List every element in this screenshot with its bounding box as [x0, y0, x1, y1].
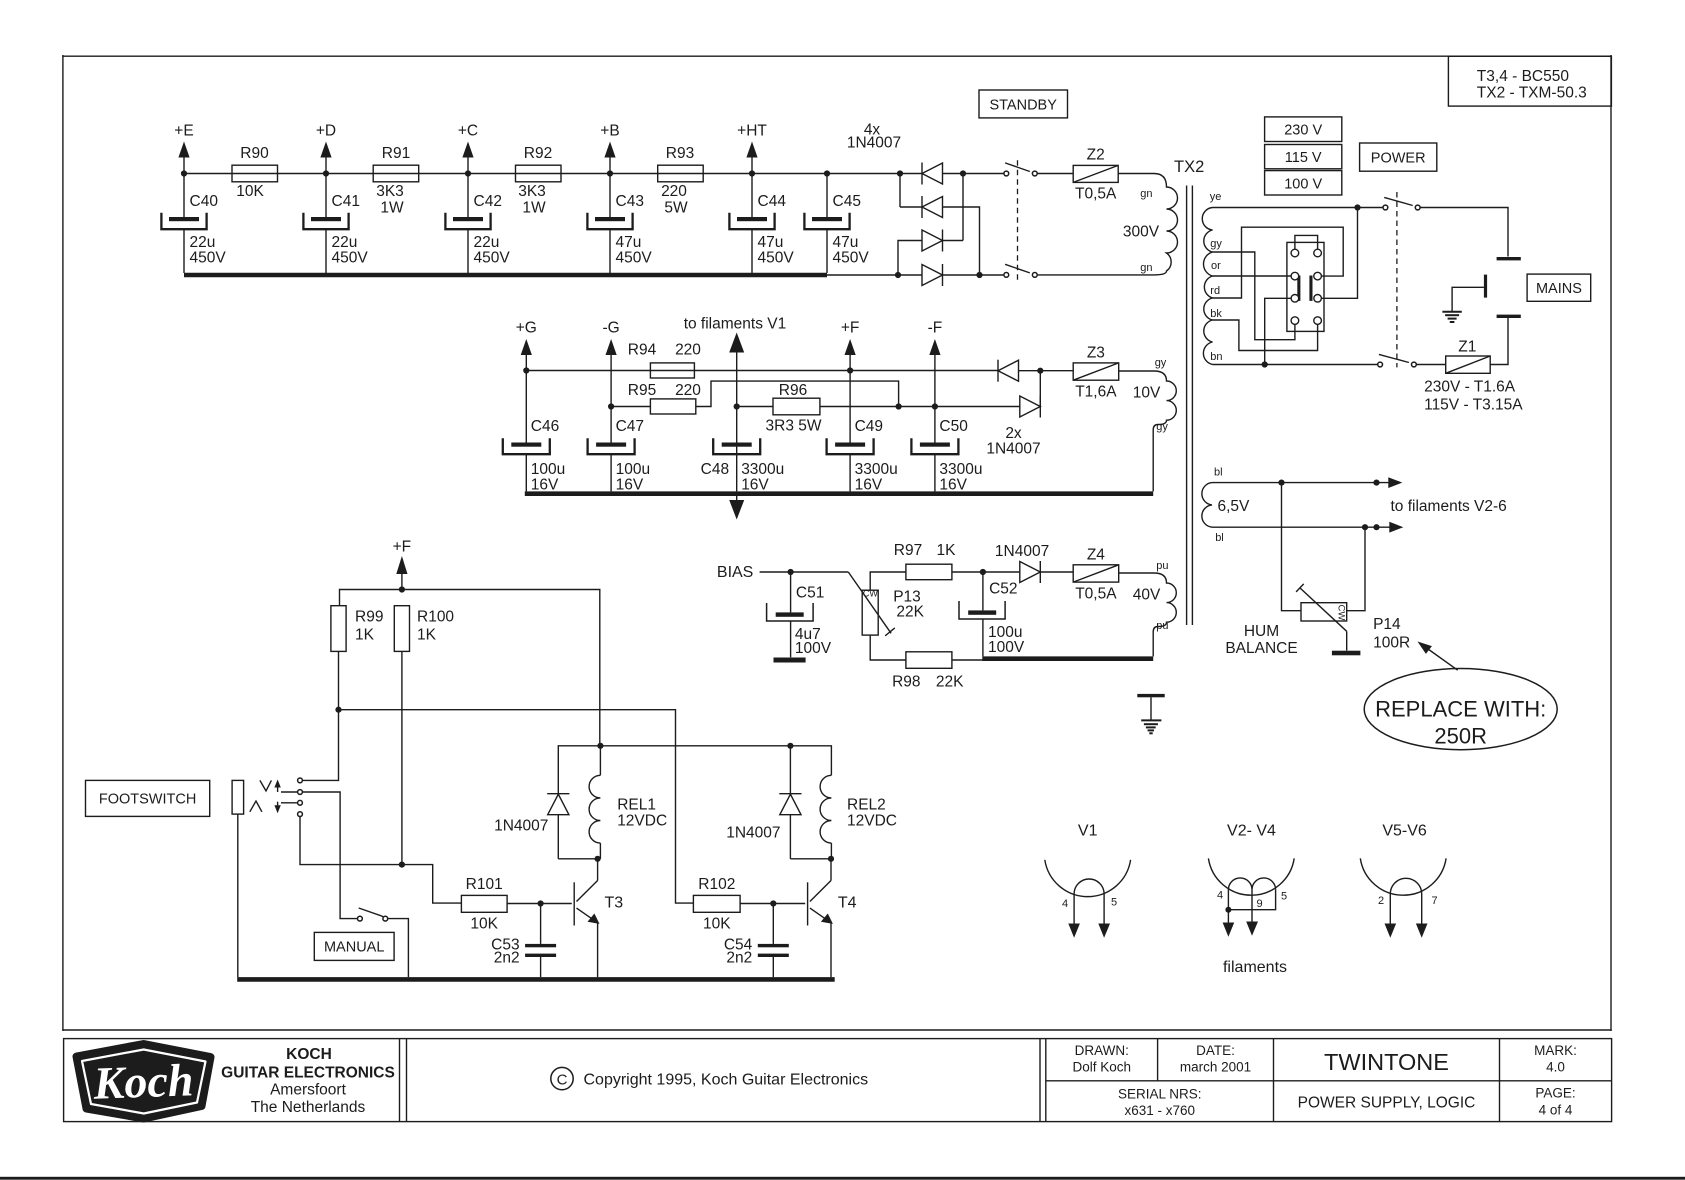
svg-text:115 V: 115 V [1285, 150, 1322, 166]
svg-text:4: 4 [1062, 898, 1068, 910]
svg-text:HUM: HUM [1244, 623, 1279, 640]
wire BIAS lead [760, 571, 849, 573]
capacitor C49 [827, 371, 898, 494]
svg-text:16V: 16V [741, 477, 769, 494]
diode lower 2x1N4007 [1020, 396, 1041, 418]
junction dots relay rail [597, 743, 793, 749]
power switch upper [1383, 197, 1420, 210]
wire D3 anode link [898, 241, 922, 276]
standby gang dashed link [1017, 160, 1019, 279]
svg-text:Copyright 1995, Koch Guitar El: Copyright 1995, Koch Guitar Electronics [584, 1072, 869, 1089]
svg-text:gy: gy [1210, 238, 1222, 250]
logo cell text [221, 1046, 395, 1116]
svg-text:gy: gy [1155, 357, 1167, 369]
fuse Z3 T1,6A [1073, 345, 1119, 401]
wire or tap to pin L2 [1213, 275, 1292, 277]
junction dot REL1 bottom [595, 856, 601, 862]
jack ring spring [250, 801, 262, 812]
wire rd tap loop to pin R2 [1213, 227, 1344, 298]
svg-text:R94: R94 [628, 342, 657, 359]
svg-text:T3,4 - BC550: T3,4 - BC550 [1477, 68, 1570, 85]
svg-text:Dolf Koch: Dolf Koch [1073, 1060, 1132, 1075]
svg-text:2n2: 2n2 [494, 950, 520, 967]
svg-text:+F: +F [841, 320, 860, 337]
diode D2 1N4007 [922, 196, 943, 218]
wire REL2 bottom [790, 858, 831, 860]
junction dot C52 node [980, 569, 986, 575]
svg-text:gn: gn [1140, 188, 1152, 200]
MAINS box [1527, 274, 1591, 301]
resistor R98 22K [892, 652, 964, 691]
svg-text:100u: 100u [531, 461, 565, 478]
svg-text:POWER SUPPLY, LOGIC: POWER SUPPLY, LOGIC [1298, 1095, 1476, 1112]
svg-text:gy: gy [1156, 421, 1168, 433]
capacitor C54 [724, 904, 789, 978]
transistor T3 [574, 859, 623, 977]
resistor R97 1K [894, 542, 956, 580]
svg-text:3K3: 3K3 [376, 183, 404, 200]
junction dots row2 [523, 367, 938, 409]
wire row1 rail [184, 173, 900, 175]
svg-text:V2- V4: V2- V4 [1227, 823, 1276, 840]
svg-text:100R: 100R [1373, 634, 1410, 651]
svg-text:Amersfoort: Amersfoort [270, 1082, 346, 1099]
svg-text:100u: 100u [616, 461, 650, 478]
svg-text:C41: C41 [332, 193, 360, 210]
junction dot +F rail [399, 586, 405, 592]
svg-text:230V - T1.6A: 230V - T1.6A [1424, 379, 1516, 396]
resistor R94 220 [628, 342, 702, 379]
paper bottom edge line [0, 1177, 1685, 1180]
svg-text:TX2 - TXM-50.3: TX2 - TXM-50.3 [1477, 85, 1587, 102]
tube V1 filament [1074, 879, 1104, 894]
svg-text:450V: 450V [833, 250, 870, 267]
svg-text:-F: -F [928, 320, 943, 337]
Koch logo badge [77, 1044, 211, 1119]
svg-text:x631 - x760: x631 - x760 [1125, 1103, 1196, 1118]
capacitor C41 [303, 174, 368, 274]
svg-text:to filaments V2-6: to filaments V2-6 [1391, 498, 1507, 515]
svg-text:march 2001: march 2001 [1180, 1060, 1251, 1075]
P14 ground bar [1332, 651, 1361, 656]
mains plug earth pin [1484, 275, 1487, 298]
svg-text:4.0: 4.0 [1546, 1060, 1565, 1075]
svg-text:C44: C44 [758, 193, 787, 210]
svg-text:TWINTONE: TWINTONE [1324, 1049, 1449, 1075]
svg-text:3R3 5W: 3R3 5W [766, 418, 822, 435]
svg-text:BALANCE: BALANCE [1225, 640, 1297, 657]
P14 wiper [1296, 584, 1347, 651]
filament V1 arrow up head [729, 333, 744, 492]
svg-text:1N4007: 1N4007 [847, 135, 901, 152]
svg-text:+D: +D [316, 123, 336, 140]
diode D1 1N4007 top [922, 163, 943, 185]
wire 6,5V top feed [1212, 477, 1402, 488]
jack contacts [298, 778, 303, 816]
svg-text:1N4007: 1N4007 [726, 825, 780, 842]
svg-text:REL1: REL1 [617, 797, 656, 814]
potentiometer P13 body [862, 590, 878, 635]
svg-text:R90: R90 [240, 145, 269, 162]
svg-text:16V: 16V [855, 477, 883, 494]
resistor R91 [373, 145, 419, 217]
svg-text:DATE:: DATE: [1196, 1043, 1235, 1058]
wire R97 to diode [952, 571, 1020, 573]
earth ground symbol [1442, 312, 1461, 322]
node +D [316, 123, 336, 174]
svg-text:6,5V: 6,5V [1218, 498, 1251, 515]
wire R100 bottom [401, 651, 403, 864]
capacitor C51 [767, 572, 832, 657]
svg-text:16V: 16V [939, 477, 967, 494]
node +F [841, 320, 860, 371]
svg-text:1K: 1K [937, 542, 957, 559]
svg-text:ye: ye [1210, 191, 1222, 203]
box 115V [1265, 145, 1342, 169]
mains plug neutral pin [1497, 315, 1521, 318]
svg-text:250R: 250R [1434, 724, 1487, 749]
svg-text:Z3: Z3 [1087, 345, 1105, 362]
capacitor C44 [729, 174, 794, 274]
svg-text:1N4007: 1N4007 [995, 543, 1049, 560]
svg-text:+HT: +HT [737, 123, 767, 140]
node +E [174, 123, 193, 174]
capacitor C42 [445, 174, 510, 274]
wire DC+ drop [899, 174, 901, 208]
wire ye node to selector pin R3 [1321, 208, 1357, 299]
title fields [1073, 1043, 1577, 1118]
tube V1 envelope [1045, 823, 1131, 897]
selector jumper top [1295, 235, 1318, 249]
resistor R92 [516, 145, 562, 217]
capacitor C43 [587, 174, 652, 274]
svg-text:R93: R93 [666, 145, 694, 162]
svg-text:5W: 5W [664, 200, 688, 217]
svg-text:FOOTSWITCH: FOOTSWITCH [99, 792, 196, 808]
svg-text:R92: R92 [524, 145, 552, 162]
wire diode to Z4 [1040, 571, 1073, 573]
junction dot REL2 bottom [828, 856, 834, 862]
svg-text:-G: -G [602, 320, 619, 337]
svg-text:C40: C40 [190, 193, 219, 210]
svg-text:450V: 450V [190, 250, 227, 267]
winding 300V [1037, 174, 1177, 275]
resistor R96 3R3 5W [766, 382, 822, 435]
svg-text:7: 7 [1431, 895, 1437, 907]
svg-text:Z2: Z2 [1087, 146, 1105, 163]
POWER box [1360, 143, 1437, 171]
svg-text:3K3: 3K3 [518, 183, 546, 200]
svg-text:bl: bl [1215, 532, 1224, 544]
filament V1 arrow down head [729, 491, 744, 519]
label 2x 1N4007 [986, 425, 1040, 458]
tube V5-V6 pin 7 lead [1416, 894, 1438, 938]
diode D3 1N4007 [922, 230, 943, 252]
wire row2 upper rail +G/+F [526, 370, 998, 372]
svg-text:10V: 10V [1133, 385, 1161, 402]
box 230V [1265, 117, 1342, 142]
svg-text:1N4007: 1N4007 [494, 818, 548, 835]
svg-text:pu: pu [1156, 560, 1168, 572]
transformer TX2 core [1187, 186, 1193, 626]
title block [64, 1039, 1612, 1122]
winding 6,5V [1202, 483, 1212, 528]
STANDBY box [979, 90, 1068, 118]
svg-text:T0,5A: T0,5A [1075, 185, 1117, 202]
svg-text:1K: 1K [417, 627, 437, 644]
svg-text:C: C [557, 1072, 568, 1089]
junction dot diode node [1037, 368, 1043, 374]
svg-text:40V: 40V [1133, 587, 1161, 604]
wire to D2 [900, 206, 922, 208]
ground bus bias [982, 656, 1153, 661]
svg-text:10K: 10K [236, 183, 264, 200]
svg-text:16V: 16V [616, 477, 644, 494]
selector bar left [1297, 276, 1300, 301]
jack contact stubs [281, 792, 298, 803]
svg-text:100V: 100V [795, 640, 832, 657]
wire C48 node to R96 [737, 406, 773, 408]
svg-text:Z1: Z1 [1458, 339, 1476, 356]
svg-text:450V: 450V [616, 250, 653, 267]
svg-text:3300u: 3300u [855, 461, 898, 478]
svg-text:10K: 10K [470, 916, 498, 933]
chassis ground symbol [1137, 694, 1164, 733]
svg-text:+G: +G [516, 320, 537, 337]
transistor T4 [808, 859, 857, 977]
resistor R102 10K [693, 876, 740, 933]
FOOTSWITCH box [86, 780, 210, 816]
svg-text:TX2: TX2 [1174, 158, 1204, 176]
svg-text:+F: +F [393, 539, 412, 556]
svg-text:R95: R95 [628, 382, 656, 399]
wire relay rail [558, 746, 831, 794]
svg-text:DRAWN:: DRAWN: [1075, 1043, 1129, 1058]
node +C [458, 123, 478, 174]
drawing frame [62, 55, 1611, 1031]
node +G [516, 320, 537, 371]
svg-text:STANDBY: STANDBY [989, 98, 1057, 114]
svg-text:220: 220 [675, 382, 701, 399]
jack arrow down [274, 802, 280, 814]
wire earth lead [1452, 287, 1484, 311]
resistor R90 [232, 145, 278, 200]
node +B [600, 123, 619, 174]
selector pins [1291, 249, 1321, 324]
junction dot R99 node [335, 707, 341, 713]
svg-text:R91: R91 [382, 145, 410, 162]
svg-text:CW: CW [1335, 604, 1346, 620]
wire gy tap to pin L4 [1213, 252, 1295, 340]
tube V2-V4 pin 5 link [1225, 890, 1287, 913]
relay coil REL1 [589, 746, 667, 859]
tube V5-V6 filament [1390, 878, 1421, 894]
tube V2-V4 pin 9 lead [1246, 890, 1262, 936]
svg-text:bn: bn [1210, 351, 1222, 363]
svg-text:230 V: 230 V [1284, 123, 1322, 139]
wire P13 top to R97 [870, 572, 906, 590]
resistor R100 1K [394, 606, 454, 652]
tube V1 pin 5 lead [1098, 894, 1117, 938]
svg-text:R100: R100 [417, 609, 454, 626]
svg-text:450V: 450V [474, 250, 511, 267]
svg-text:The Netherlands: The Netherlands [251, 1099, 366, 1116]
svg-text:22u: 22u [332, 234, 358, 251]
svg-text:MARK:: MARK: [1534, 1043, 1577, 1058]
svg-text:filaments: filaments [1223, 959, 1287, 976]
svg-text:5: 5 [1281, 891, 1287, 903]
svg-text:to filaments V1: to filaments V1 [684, 316, 787, 333]
node -F [928, 320, 943, 407]
diode upper 2x1N4007 [998, 360, 1019, 382]
svg-text:2x: 2x [1005, 425, 1022, 442]
resistor R93 [658, 145, 704, 217]
footswitch jack body [232, 780, 244, 814]
diode 1N4007 REL1 [494, 794, 569, 859]
svg-text:22K: 22K [896, 604, 924, 621]
wire row2 lower rail [611, 406, 650, 408]
svg-text:450V: 450V [758, 250, 795, 267]
fuse Z2 T0,5A [1073, 146, 1118, 202]
svg-text:bl: bl [1214, 467, 1223, 479]
svg-text:9: 9 [1256, 898, 1262, 910]
info box T3,4 / TX2 [1448, 56, 1611, 106]
MANUAL switch [358, 908, 388, 921]
junction dot T3 base [538, 900, 544, 906]
svg-text:4: 4 [1217, 889, 1223, 901]
svg-text:C47: C47 [616, 418, 644, 435]
capacitor C46 [503, 371, 565, 494]
svg-text:POWER: POWER [1371, 151, 1426, 167]
svg-text:22u: 22u [474, 234, 500, 251]
wire pin L3 to bn node [1265, 298, 1292, 364]
svg-text:4 of 4: 4 of 4 [1539, 1103, 1573, 1118]
wire bn switch to fuse [1416, 364, 1445, 366]
diode 1N4007 REL2 [726, 746, 801, 859]
svg-text:C49: C49 [855, 418, 883, 435]
capacitor C48 [701, 438, 785, 493]
wire D1 anode to AC node [943, 173, 1004, 175]
wire D4 to standby [943, 274, 1004, 276]
svg-text:T0,5A: T0,5A [1075, 586, 1117, 603]
standby switch lower [1004, 264, 1037, 277]
svg-text:R101: R101 [466, 876, 503, 893]
resistor R101 10K [461, 876, 507, 933]
replace arrow [1418, 642, 1458, 671]
svg-text:3300u: 3300u [741, 461, 784, 478]
wire R102 to T4 base [740, 903, 805, 905]
svg-text:+C: +C [458, 123, 478, 140]
wire lower diode up to node [1039, 371, 1041, 407]
svg-text:16V: 16V [531, 477, 559, 494]
label Z1 ratings [1424, 379, 1523, 414]
svg-text:1W: 1W [522, 200, 546, 217]
capacitor C50 [911, 407, 982, 494]
svg-text:12VDC: 12VDC [617, 813, 667, 830]
svg-text:100V: 100V [988, 639, 1025, 656]
svg-text:R98: R98 [892, 673, 920, 690]
label 4x 1N4007 [847, 122, 901, 152]
svg-text:P14: P14 [1373, 616, 1401, 633]
jack tip spring V [260, 780, 272, 791]
wire R96 to -F rail [820, 406, 1020, 408]
svg-text:rd: rd [1210, 285, 1220, 297]
wire D2 anode [943, 207, 980, 275]
svg-text:or: or [1211, 260, 1221, 272]
wire switch to plug live [1420, 208, 1508, 257]
svg-text:115V - T3.15A: 115V - T3.15A [1424, 397, 1523, 414]
junction dot BIAS node [788, 569, 794, 575]
svg-text:+E: +E [174, 123, 193, 140]
junction dot ye node [1354, 204, 1360, 210]
svg-text:REPLACE WITH:: REPLACE WITH: [1375, 697, 1546, 722]
svg-text:R97: R97 [894, 542, 922, 559]
resistor R99 1K [331, 606, 384, 652]
tube V5-V6 pin 2 lead [1378, 894, 1396, 938]
svg-text:REL2: REL2 [847, 797, 886, 814]
svg-text:MAINS: MAINS [1536, 281, 1582, 297]
tube V2-V4 pin 4 lead [1217, 889, 1234, 937]
svg-text:1W: 1W [380, 200, 404, 217]
svg-text:C45: C45 [833, 193, 861, 210]
relay coil REL2 [820, 775, 897, 859]
voltage selector block [1287, 242, 1324, 331]
fuse Z1 [1446, 339, 1491, 374]
ground bus row1 [184, 273, 827, 278]
svg-text:22K: 22K [936, 673, 964, 690]
svg-text:12VDC: 12VDC [847, 813, 897, 830]
tube V1 pin 4 lead [1062, 894, 1080, 938]
jack arrow up [274, 780, 280, 793]
tube V2-V4 envelope [1208, 823, 1294, 896]
wire row1 rail to bridge [900, 173, 922, 175]
wire junctions row1 [181, 170, 830, 176]
node -G [602, 320, 619, 407]
capacitor C47 [588, 407, 650, 494]
svg-text:Koch: Koch [92, 1054, 194, 1108]
wire hum left leg [1282, 483, 1302, 611]
svg-text:300V: 300V [1123, 223, 1160, 240]
svg-text:47u: 47u [758, 234, 784, 251]
wire manual to bus [388, 919, 409, 978]
svg-text:C46: C46 [531, 418, 559, 435]
svg-text:22u: 22u [190, 234, 216, 251]
svg-text:KOCH: KOCH [286, 1046, 332, 1063]
MANUAL box [314, 932, 394, 960]
wire bk tap to pin R4 [1213, 320, 1318, 351]
svg-text:C50: C50 [939, 418, 968, 435]
power switch lower [1378, 354, 1417, 367]
svg-text:C51: C51 [796, 585, 824, 602]
svg-text:Z4: Z4 [1087, 547, 1105, 564]
ground bus relays [237, 977, 835, 982]
node +HT [737, 123, 767, 174]
wire long rail to R102 [339, 710, 694, 903]
wire switch to fuse [1037, 173, 1073, 175]
standby switch upper [1004, 163, 1037, 176]
resistor R95 220 [628, 382, 702, 414]
svg-text:220: 220 [661, 183, 687, 200]
power gang dashed link [1396, 192, 1398, 367]
wire D3 cathode link [943, 240, 964, 242]
tube V2-V4 filaments [1228, 878, 1275, 890]
junction dot bn node [1262, 361, 1268, 367]
P13 wiper diagonal [848, 572, 895, 636]
capacitor C45 [804, 174, 869, 274]
svg-text:C52: C52 [989, 581, 1017, 598]
svg-text:R99: R99 [355, 609, 383, 626]
svg-text:R102: R102 [698, 876, 735, 893]
